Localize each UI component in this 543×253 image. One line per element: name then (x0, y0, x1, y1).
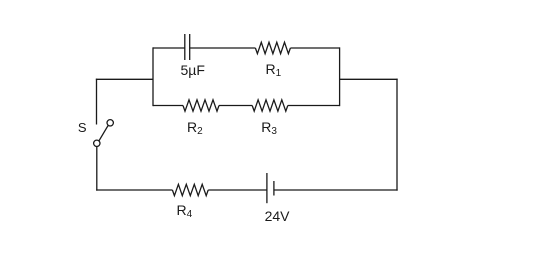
resistor R2 (183, 100, 219, 111)
wire middle branch left segment (153, 105, 183, 107)
switch S contact circle top (107, 120, 113, 126)
wire bottom left segment (96, 189, 172, 191)
label R2 (187, 120, 203, 135)
resistor R1 (255, 42, 290, 53)
wire middle branch right segment (288, 105, 340, 107)
capacitor C1 plate left (184, 34, 186, 60)
wire bottom middle segment (208, 189, 267, 191)
wire left connector (96, 78, 153, 80)
wire left branch vertical (152, 47, 154, 106)
wire right branch vertical (339, 47, 341, 106)
resistor R4 (172, 184, 208, 195)
wire right outer vertical (396, 79, 398, 191)
label 24V (265, 209, 290, 223)
wire top branch middle segment (190, 47, 256, 49)
wire left lower vertical from switch (96, 147, 98, 191)
wire right connector (340, 78, 398, 80)
label R3 (261, 120, 277, 135)
battery V1 short plate (273, 181, 275, 196)
wire middle branch center segment (219, 105, 252, 107)
battery V1 long plate (266, 173, 268, 203)
capacitor C1 plate right (189, 34, 191, 60)
wire top branch right segment (290, 47, 339, 49)
switch S arm (99, 125, 108, 141)
label R4 (177, 203, 193, 218)
wire bottom right segment (274, 189, 398, 191)
switch S contact circle bottom (94, 140, 100, 146)
label S (78, 121, 87, 134)
wire top branch left segment (153, 47, 185, 49)
label R1 (266, 62, 282, 77)
resistor R3 (252, 100, 288, 111)
label 5µF (181, 63, 205, 77)
wire left upper vertical to switch (96, 79, 98, 125)
